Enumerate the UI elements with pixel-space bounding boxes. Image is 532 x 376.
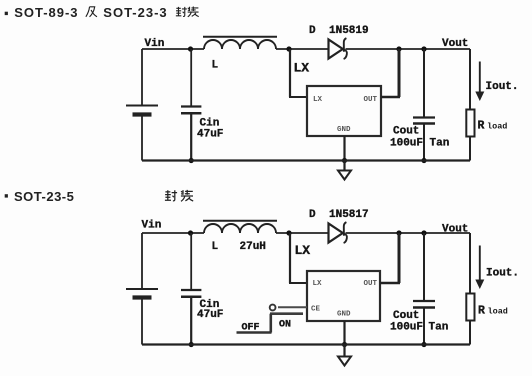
- svg-text:Vout: Vout: [442, 38, 468, 50]
- svg-text:27uH: 27uH: [240, 241, 266, 253]
- svg-text:R: R: [478, 120, 485, 133]
- svg-text:load: load: [488, 307, 508, 317]
- svg-text:SOT-23-5: SOT-23-5: [14, 189, 74, 204]
- svg-text:100uF: 100uF: [390, 322, 423, 334]
- svg-text:GND: GND: [337, 311, 351, 319]
- svg-text:LX: LX: [295, 243, 311, 258]
- svg-text:L: L: [212, 241, 219, 253]
- svg-text:Iout.: Iout.: [486, 81, 519, 93]
- svg-text:load: load: [487, 122, 507, 132]
- svg-text:1N5819: 1N5819: [329, 25, 369, 37]
- svg-text:OUT: OUT: [364, 96, 378, 104]
- svg-text:GND: GND: [337, 126, 351, 134]
- svg-text:SOT-23-3: SOT-23-3: [103, 5, 167, 20]
- svg-text:LX: LX: [313, 96, 323, 104]
- svg-text:47uF: 47uF: [197, 309, 223, 321]
- svg-text:SOT-89-3: SOT-89-3: [14, 5, 78, 20]
- svg-text:ON: ON: [279, 320, 291, 331]
- svg-text:Vin: Vin: [145, 38, 165, 50]
- svg-text:Tan: Tan: [430, 138, 450, 150]
- svg-text:Cout: Cout: [393, 310, 419, 322]
- svg-text:Vout: Vout: [442, 224, 468, 236]
- svg-text:LX: LX: [313, 280, 323, 288]
- svg-text:1N5817: 1N5817: [329, 209, 369, 221]
- svg-text:LX: LX: [294, 61, 310, 76]
- svg-text:Vin: Vin: [142, 220, 162, 232]
- svg-text:D: D: [309, 25, 316, 37]
- svg-text:CE: CE: [311, 306, 321, 314]
- svg-text:Tan: Tan: [429, 322, 449, 334]
- svg-text:OFF: OFF: [242, 323, 260, 334]
- svg-text:Cout: Cout: [393, 126, 419, 138]
- svg-text:R: R: [478, 305, 485, 318]
- svg-text:OUT: OUT: [364, 280, 378, 288]
- svg-text:Iout.: Iout.: [486, 268, 519, 280]
- svg-text:L: L: [212, 60, 219, 72]
- svg-text:47uF: 47uF: [197, 129, 223, 141]
- svg-text:100uF: 100uF: [390, 138, 423, 150]
- svg-text:D: D: [309, 209, 316, 221]
